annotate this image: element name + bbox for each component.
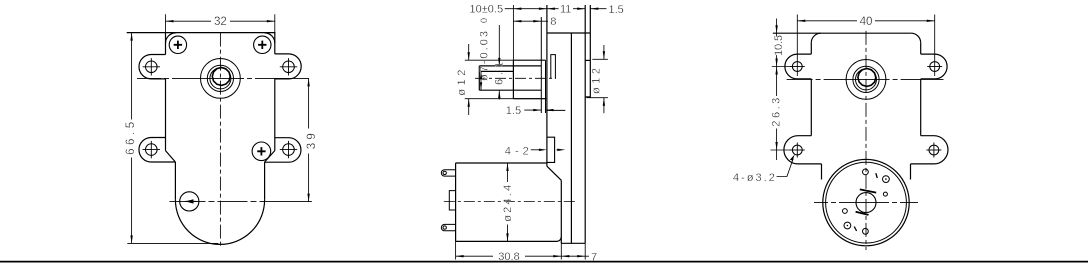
lower-right ear hole bbox=[926, 143, 941, 158]
svg-text:10±0.5: 10±0.5 bbox=[470, 4, 504, 16]
body left lower edge bbox=[821, 164, 823, 180]
upper-left ear tab bbox=[139, 55, 166, 79]
bottom semicircle bbox=[175, 200, 264, 245]
plate top edge (with 10.5 extension) bbox=[773, 32, 911, 34]
plate top edge (with 66.5 extension) bbox=[127, 32, 276, 34]
dim ø12 right: outside arrows bbox=[603, 45, 605, 113]
dim 39: dimension line bbox=[307, 78, 309, 201]
rear boss stub bottom bbox=[585, 96, 590, 98]
housing top edge bbox=[547, 32, 590, 34]
dim 1.5 top: arrow and text bbox=[590, 8, 606, 10]
washer front line (with dim extensions) bbox=[540, 17, 542, 113]
output shaft top line bbox=[479, 65, 541, 67]
dim ø7: arrow lines (outside arrows) bbox=[498, 25, 500, 100]
svg-text:32: 32 bbox=[214, 16, 227, 28]
motor body top edge bbox=[456, 162, 547, 164]
lower-right ear tab bbox=[911, 136, 949, 164]
central shaft knurl polygon bbox=[212, 68, 230, 86]
motor terminal top eyelet bbox=[441, 170, 455, 176]
dim 66.5: bottom extension line bbox=[127, 242, 218, 244]
dim 39: bottom extension line bbox=[264, 201, 312, 203]
dim 11: line and arrows bbox=[547, 8, 585, 10]
motor tick top bbox=[876, 173, 878, 178]
svg-text:1.5: 1.5 bbox=[506, 105, 521, 117]
svg-text:10.5: 10.5 bbox=[773, 35, 785, 56]
motor small hole right bbox=[883, 192, 887, 196]
body right edge mid segment bbox=[920, 79, 922, 136]
upper-left ear hole bbox=[143, 58, 160, 75]
upper-right ear tab bbox=[275, 54, 301, 79]
label 4-ø3.2: leader line with arrow bbox=[777, 154, 795, 176]
motor tick bottom bbox=[854, 227, 856, 231]
body left edge mid segment bbox=[165, 79, 167, 151]
body left lower edge bbox=[174, 162, 176, 200]
dim 30.8: extension lines bbox=[455, 241, 457, 259]
housing corner arc top-right bbox=[265, 33, 275, 43]
vertical centerline bbox=[865, 31, 867, 250]
screw circle lower-right with cross bbox=[252, 142, 271, 161]
svg-text:4-ø3.2: 4-ø3.2 bbox=[733, 172, 775, 184]
upper-right ear hole bbox=[280, 58, 297, 75]
dim 10.5 and 26.3: vertical line segments bbox=[775, 19, 777, 161]
dim 32: extension lines bbox=[165, 14, 167, 32]
svg-text:40: 40 bbox=[860, 16, 873, 28]
dim 8: line and arrows bbox=[513, 20, 548, 22]
rear boss outer circle bbox=[846, 60, 886, 100]
body right edge upper segment bbox=[274, 33, 276, 54]
housing lower right edge bbox=[560, 180, 562, 243]
upper-left ear tab bbox=[785, 54, 811, 79]
housing corner arc top-left bbox=[166, 33, 176, 43]
central shaft ring outer bbox=[207, 65, 233, 91]
body right edge upper segment bbox=[920, 43, 922, 54]
dim 30.8: line and arrows bbox=[456, 255, 562, 257]
bearing boss bottom edge bbox=[513, 98, 545, 100]
output shaft bottom line bbox=[479, 89, 541, 91]
dim ø12 right: extension lines bbox=[592, 58, 608, 60]
inner edge horizontal bbox=[547, 109, 565, 111]
svg-text:66.5: 66.5 bbox=[125, 122, 137, 155]
svg-text:26.3: 26.3 bbox=[770, 98, 782, 127]
motor end cap outer circle bbox=[823, 159, 909, 245]
motor body bottom edge with right fillet bbox=[456, 237, 562, 242]
lower-left ear tab bbox=[784, 136, 822, 164]
lower-left ear hole bbox=[143, 141, 160, 158]
dim 10±0.5: line and arrows bbox=[505, 8, 547, 10]
svg-text:39: 39 bbox=[306, 133, 318, 149]
motor shaft hole bbox=[856, 193, 876, 213]
body right lower edge bbox=[910, 164, 912, 180]
lower-left ear tab bbox=[139, 138, 175, 163]
bearing boss top edge bbox=[513, 59, 545, 61]
motor rivet bottom-left bbox=[844, 222, 851, 229]
plate inner vertical bbox=[570, 33, 572, 243]
svg-text:ø12: ø12 bbox=[591, 68, 603, 94]
motor brush housing rect bbox=[449, 191, 455, 210]
body left chamfer bbox=[166, 151, 176, 162]
central shaft boss outer circle bbox=[201, 59, 241, 99]
rear boss stub top bbox=[585, 59, 590, 61]
svg-text:4-2: 4-2 bbox=[505, 146, 529, 158]
dim 66.5: dimension line bbox=[130, 33, 132, 244]
central shaft ring inner bbox=[210, 68, 231, 89]
lower-right ear hole bbox=[280, 141, 297, 158]
upper-left ear hole bbox=[790, 62, 805, 72]
rear boss ring inner bbox=[856, 69, 877, 90]
top-right corner arc bbox=[911, 33, 921, 43]
svg-text:ø7-0.03: ø7-0.03 bbox=[478, 31, 490, 81]
body right edge mid segment bbox=[274, 79, 276, 151]
shaft hole bottom tab bbox=[856, 212, 869, 215]
screw circle bottom-left with arrow mark bbox=[180, 192, 199, 211]
dim 40: extension lines through ear holes bbox=[796, 15, 798, 77]
plate front face vertical bbox=[584, 5, 586, 243]
svg-text:6.1: 6.1 bbox=[494, 62, 506, 85]
output shaft tip bbox=[478, 66, 480, 90]
horizontal centerline through shaft (also ext for 39) bbox=[137, 77, 309, 79]
rear boss knurl polygon bbox=[858, 69, 876, 87]
svg-text:1.5: 1.5 bbox=[609, 4, 624, 16]
motor vent hole bottom bbox=[863, 228, 869, 234]
body right lower edge bbox=[264, 162, 266, 200]
motor end cap inner circle bbox=[826, 162, 907, 243]
body left edge upper segment bbox=[165, 33, 167, 55]
dim 26.3: extension line at lower ear bbox=[771, 149, 792, 151]
svg-text:ø24.4: ø24.4 bbox=[502, 185, 514, 222]
dim ø24.4: line and arrows bbox=[506, 163, 508, 241]
screw circle top-right with cross bbox=[254, 36, 271, 53]
lower-right ear tab bbox=[265, 138, 301, 163]
upper-right ear hole bbox=[927, 62, 942, 72]
svg-text:8: 8 bbox=[550, 16, 556, 28]
bearing boss face bbox=[512, 60, 514, 98]
plate rear face vertical bbox=[589, 5, 591, 98]
motor body left edge bbox=[455, 163, 457, 241]
motor centerline bbox=[444, 201, 575, 203]
boss horizontal centerline bbox=[787, 78, 944, 80]
dim 32: dimension line with arrows bbox=[166, 20, 275, 22]
housing bottom edge bbox=[561, 242, 585, 244]
upper-right ear tab bbox=[921, 54, 947, 79]
horizontal centerline bottom screws bbox=[170, 200, 265, 202]
body left edge mid segment bbox=[810, 79, 812, 136]
svg-text:0: 0 bbox=[479, 18, 489, 23]
shaft hole top tab bbox=[860, 189, 876, 192]
motor rivet top-right bbox=[883, 176, 890, 183]
lower-left ear hole bbox=[790, 143, 805, 158]
output shaft flat line bbox=[481, 70, 513, 72]
dim 1.5 bottom: arrows and text bbox=[524, 109, 553, 111]
dim 7: line and arrows bbox=[561, 255, 589, 257]
rear boss ring outer bbox=[853, 66, 879, 92]
motor vent hole top bbox=[863, 169, 869, 175]
shaft centerline bbox=[475, 77, 556, 79]
housing front face vertical bbox=[546, 5, 548, 166]
housing chamfer bbox=[547, 166, 561, 180]
dim 26.3: extension line at upper ear bbox=[772, 66, 791, 68]
dim 40: line and arrows bbox=[797, 20, 934, 22]
top-left corner arc bbox=[811, 33, 821, 43]
dim ø12 left: extension lines bbox=[465, 59, 514, 61]
screw circle top-left with cross bbox=[169, 36, 186, 53]
dim 10±0.5: extension line bbox=[512, 5, 514, 60]
vertical centerline bbox=[219, 33, 221, 247]
bearing retainer rect bbox=[551, 55, 556, 79]
svg-text:ø12: ø12 bbox=[456, 70, 468, 96]
washer rear line bbox=[545, 60, 547, 113]
dim ø12 left: outside arrows bbox=[468, 44, 470, 115]
motor horizontal centerline bbox=[814, 202, 918, 204]
svg-text:11: 11 bbox=[560, 4, 571, 16]
dim 6.1: line and arrows bbox=[480, 71, 482, 90]
bottom border line bbox=[0, 261, 1088, 263]
mounting tab (4-2) bbox=[547, 137, 555, 162]
body right chamfer bbox=[265, 151, 275, 162]
body left edge upper segment bbox=[810, 43, 812, 54]
motor small hole left bbox=[843, 209, 848, 214]
motor terminal bottom eyelet bbox=[441, 224, 455, 230]
